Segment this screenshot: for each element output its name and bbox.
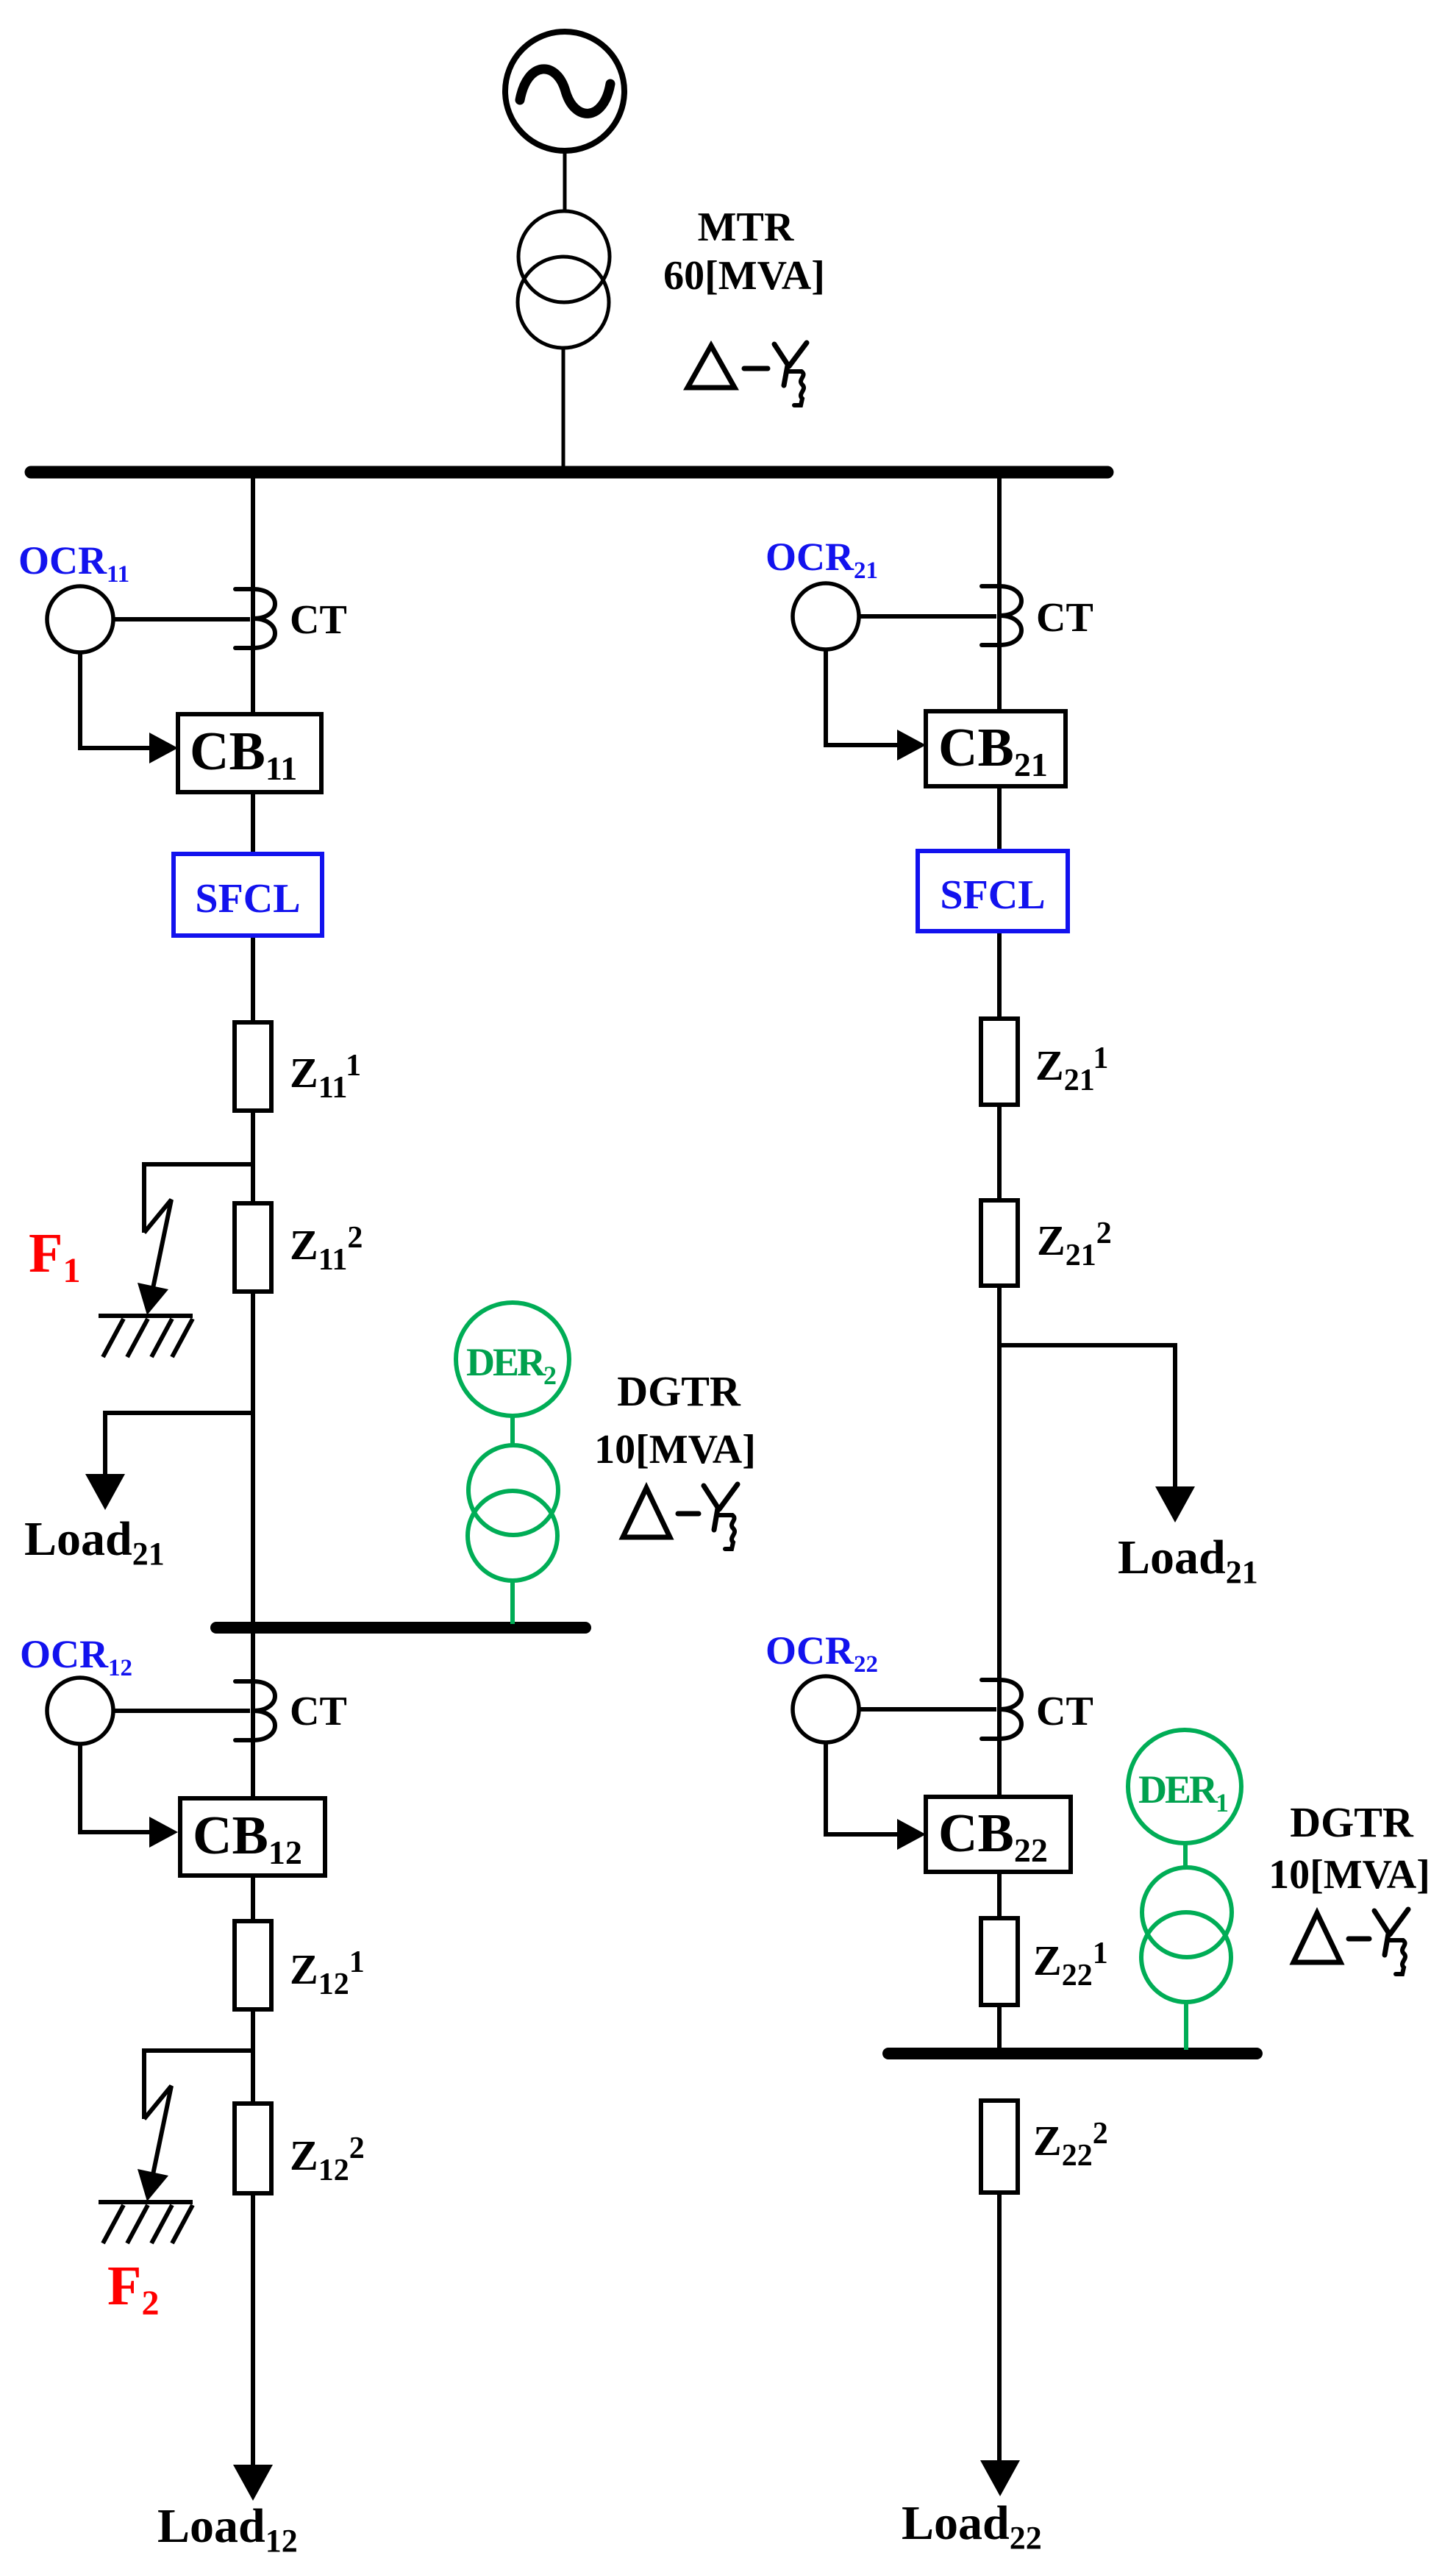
svg-text:CT: CT <box>1036 1689 1093 1734</box>
svg-text:DER1: DER1 <box>1138 1767 1228 1817</box>
svg-text:SFCL: SFCL <box>940 872 1045 918</box>
svg-text:60[MVA]: 60[MVA] <box>663 253 825 299</box>
svg-text:DGTR: DGTR <box>617 1367 741 1415</box>
svg-text:10[MVA]: 10[MVA] <box>594 1427 756 1472</box>
svg-text:DGTR: DGTR <box>1290 1798 1414 1846</box>
svg-text:SFCL: SFCL <box>195 876 300 922</box>
svg-text:DER2: DER2 <box>466 1340 556 1390</box>
svg-text:CT: CT <box>1036 595 1093 641</box>
svg-text:MTR: MTR <box>698 204 794 250</box>
svg-text:10[MVA]: 10[MVA] <box>1268 1852 1430 1898</box>
svg-text:CT: CT <box>290 597 347 643</box>
svg-text:CT: CT <box>290 1689 347 1734</box>
